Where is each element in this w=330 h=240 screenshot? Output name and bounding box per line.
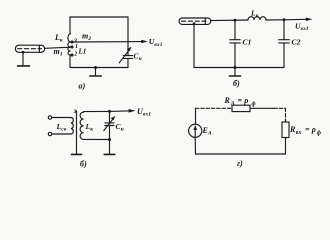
wire resistor to corner (g) <box>250 107 274 109</box>
svg-text:C1: C1 <box>243 38 252 47</box>
inductor Lsv <box>71 118 73 135</box>
ground (antenna a) <box>18 65 30 67</box>
wire to ground (b) <box>109 140 111 155</box>
wire antenna to ground <box>22 52 24 65</box>
wire corner down dashed (g) <box>285 108 287 122</box>
tap 3 dot <box>70 40 73 43</box>
ground (v) <box>229 75 240 77</box>
svg-text:2: 2 <box>73 52 77 58</box>
capacitor C2 <box>279 20 289 68</box>
wire coil bottom to bottom rail <box>70 55 128 68</box>
svg-text:б): б) <box>233 79 240 88</box>
svg-text:г): г) <box>237 159 243 168</box>
tap 2 dot <box>70 53 73 56</box>
tap 1 dot <box>70 45 73 48</box>
svg-text:m2: m2 <box>82 32 91 43</box>
capacitor Cn (a, variable) <box>119 47 132 68</box>
svg-text:m1: m1 <box>54 47 63 58</box>
wire antenna to tap 1 <box>45 47 71 48</box>
svg-text:Cн: Cн <box>116 122 124 133</box>
svg-text:Lсв: Lсв <box>56 122 67 133</box>
svg-text:L1: L1 <box>78 48 87 56</box>
inductor Lk (tapped coil) <box>68 34 71 55</box>
wire top-left rectangle <box>70 17 128 56</box>
junction dot antenna bottom (v) <box>193 22 196 25</box>
svg-text:Lк: Lк <box>54 33 63 44</box>
wire top-left dashed (g) <box>196 107 233 109</box>
arrowhead Uvx1 (b) <box>110 110 131 113</box>
svg-text:Rвх= ρф: Rвх= ρф <box>289 125 321 136</box>
bottom wire (b) <box>84 138 110 140</box>
svg-text:C2: C2 <box>292 38 301 47</box>
wire terminal bottom to Lsv <box>52 133 71 135</box>
left wire upper (g) <box>195 108 197 124</box>
svg-text:а): а) <box>79 82 86 91</box>
ground (a) <box>90 75 101 77</box>
capacitor C1 <box>230 20 240 67</box>
wire antenna down to bottom rail (v) <box>193 24 195 68</box>
terminal bottom <box>48 132 51 135</box>
wire Lk to C2 node <box>266 19 284 21</box>
terminal top <box>48 116 51 119</box>
svg-text:Lк: Lк <box>85 122 94 133</box>
capacitor Cn (b, variable) <box>104 111 116 139</box>
left wire lower (g) <box>194 137 196 154</box>
junction dot bottom (v) <box>234 66 237 69</box>
labels figure b <box>56 106 152 169</box>
svg-text:Uвх1: Uвх1 <box>295 21 309 32</box>
wire terminal top to Lsv <box>52 117 71 119</box>
labels figure a <box>54 32 163 91</box>
svg-text:Lк: Lк <box>250 9 259 20</box>
wire Rvx to bottom (g) <box>285 138 287 155</box>
junction dot bottom (b) <box>108 138 111 141</box>
wire antenna to C1 node <box>211 19 249 22</box>
inductor Lk (v) <box>248 17 266 20</box>
resistor Rvx <box>282 122 289 138</box>
wire to ground (a) <box>95 68 97 76</box>
top wire (b) <box>83 111 85 114</box>
arrowhead Uvx1 (a) <box>141 40 148 43</box>
junction dot bottom rail (a) <box>94 66 97 69</box>
arrowhead Uvx1 (v) <box>284 18 307 21</box>
ground (screen) <box>71 153 81 155</box>
source Ea arrow <box>194 128 196 138</box>
screen line <box>76 111 78 154</box>
svg-text:Cн: Cн <box>134 52 142 63</box>
junction dot top (b) <box>108 110 111 113</box>
source Ea circle <box>189 124 202 137</box>
junction dot C2 <box>283 18 286 21</box>
svg-text:б): б) <box>80 160 87 169</box>
svg-text:Uвх1: Uвх1 <box>149 37 163 48</box>
antenna WA2 (ferrite rod) <box>179 18 211 24</box>
resistor Ra <box>232 105 250 111</box>
labels figure g <box>202 96 322 168</box>
wire to ground (v) <box>234 68 236 76</box>
bottom rail (v) <box>194 67 284 69</box>
wire tap3 to output <box>72 41 143 43</box>
svg-text:EА: EА <box>202 126 212 137</box>
junction dot C1 <box>234 19 237 22</box>
antenna WA1 (ferrite rod) <box>15 45 44 52</box>
ground (b) <box>104 153 115 155</box>
svg-text:Uвх1: Uвх1 <box>137 107 151 118</box>
svg-text:э: э <box>73 106 77 115</box>
inductor Lk (b) <box>80 112 83 139</box>
bottom rail (g) <box>196 153 286 155</box>
labels figure v <box>233 9 309 89</box>
junction dot antenna bottom <box>22 51 25 54</box>
